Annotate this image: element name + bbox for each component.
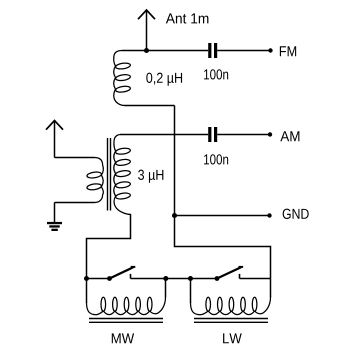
junction LW left — [188, 276, 193, 281]
terminal GND — [267, 213, 271, 217]
capacitor C1 100n FM — [208, 43, 217, 58]
wire FM left segment — [122, 50, 208, 52]
ground symbol — [47, 222, 62, 231]
switch S2 LW — [215, 267, 244, 281]
wire switch row middle — [131, 278, 218, 280]
antenna arrow Ant — [138, 10, 155, 51]
inductor L1 0,2 uH — [114, 51, 131, 106]
antenna arrow left primary feed — [46, 121, 63, 158]
coil LW — [191, 279, 271, 315]
core MW — [89, 319, 163, 323]
label 3 uH — [138, 170, 163, 183]
wire primary bottom to ground — [54, 203, 56, 223]
transformer T1 primary — [55, 158, 104, 203]
label GND — [283, 209, 309, 219]
wire rail from L1 to GND node — [174, 106, 176, 216]
switch S1 MW — [107, 267, 135, 281]
coil MW — [87, 279, 166, 315]
transformer T1 core — [108, 138, 111, 211]
wire L1 bottom — [125, 105, 175, 107]
label FM — [280, 46, 296, 56]
junction left rail — [84, 276, 89, 281]
wire FM right segment — [217, 50, 270, 52]
wire GND node to right rail — [175, 216, 271, 279]
wire secondary bottom to left rail — [87, 215, 131, 279]
label 100n C1 — [204, 69, 228, 79]
junction GND node — [172, 213, 177, 218]
terminal FM — [268, 48, 272, 52]
label AM — [280, 131, 299, 141]
wire switch row right — [240, 278, 271, 280]
wire AM left segment — [120, 134, 208, 136]
label 0,2 uH — [146, 73, 182, 86]
label LW — [223, 333, 242, 343]
wire GND — [175, 215, 270, 217]
wire switch row left — [87, 278, 110, 280]
capacitor C2 100n AM — [208, 127, 217, 142]
label Ant 1m — [166, 13, 209, 23]
junction antenna / FM node — [144, 48, 149, 53]
core LW — [194, 319, 268, 323]
label 100n C2 — [204, 154, 228, 164]
junction MW right — [163, 276, 168, 281]
label MW — [112, 333, 134, 343]
wire AM right segment — [217, 134, 270, 136]
transformer T1 secondary 3 uH — [114, 135, 131, 216]
terminal AM — [268, 132, 272, 136]
